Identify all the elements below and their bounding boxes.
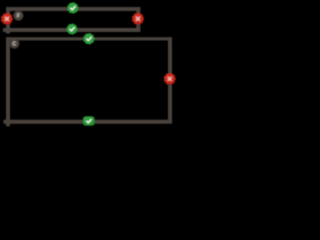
error marker X on left vertical [1,13,13,25]
error marker X on right vertical rail [164,73,176,85]
wire net2 second horizontal rail [3,28,140,32]
svg-text:C: C [12,42,16,48]
wire net3 right vertical rail [168,37,172,123]
wire net3 bottom horizontal rail [3,120,172,124]
wire net1 top horizontal rail [6,7,140,11]
node C pin badge [9,38,19,49]
node F pin badge [13,11,23,21]
status OK marker on bottom rail [83,116,95,126]
status OK marker on rail3 [83,33,94,45]
status OK marker on rail2 [67,23,78,34]
status OK marker on rail1 [67,2,78,14]
wire net3 left vertical rail [6,37,10,126]
wire net1 left vertical drop [6,7,10,33]
wire net1 right vertical (connects rail1 to rail2) [136,7,140,32]
wire net3 third horizontal rail [6,37,172,40]
error marker X on right vertical of rail1 [132,13,144,25]
